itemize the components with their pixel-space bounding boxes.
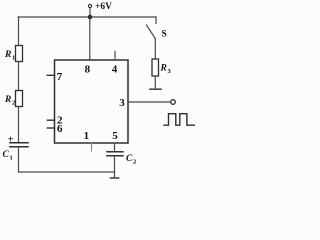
pin 7 stub [47, 74, 54, 76]
svg-text:2: 2 [12, 100, 15, 107]
wire left branch down to R1 [18, 17, 20, 46]
svg-text:R: R [4, 50, 11, 60]
wire R3 to ground [154, 76, 156, 89]
svg-text:4: 4 [112, 63, 118, 75]
wire top supply rail [18, 16, 156, 18]
svg-text:C: C [126, 154, 133, 164]
svg-text:+: + [8, 134, 14, 145]
svg-text:C: C [3, 150, 10, 160]
wire bottom rail [19, 171, 115, 173]
capacitor C2 [107, 152, 123, 156]
wire switch to R3 [154, 39, 156, 59]
junction node dot [88, 15, 93, 20]
svg-text:+6V: +6V [95, 2, 112, 12]
svg-text:2: 2 [133, 159, 136, 166]
resistor R3 [152, 59, 159, 76]
resistor R2 [16, 91, 23, 107]
pin 2 stub [47, 119, 54, 121]
power terminal circle [88, 4, 91, 7]
resistor R1 [16, 46, 23, 62]
ground bar under R3 [150, 88, 161, 90]
square wave symbol [164, 114, 194, 126]
wire R1 to R2 [18, 62, 20, 91]
switch S blade [147, 25, 156, 39]
svg-text:R: R [160, 64, 167, 74]
wire R2 to C1 [18, 107, 20, 143]
svg-text:1: 1 [84, 130, 90, 142]
svg-text:5: 5 [112, 130, 118, 142]
output terminal circle [171, 100, 176, 105]
svg-text:1: 1 [12, 55, 15, 62]
svg-text:R: R [4, 95, 11, 105]
svg-text:8: 8 [85, 63, 91, 75]
svg-text:3: 3 [119, 97, 125, 109]
pin 3 output wire [128, 101, 171, 103]
svg-text:S: S [162, 30, 167, 40]
pin 1 stub [91, 143, 93, 151]
wire C2 to ground [114, 156, 116, 178]
svg-text:7: 7 [57, 71, 63, 83]
svg-text:3: 3 [168, 68, 172, 75]
capacitor C1 [10, 143, 28, 147]
switch S contact stub [155, 17, 157, 24]
power terminal vertical lead [89, 8, 91, 17]
svg-text:6: 6 [57, 123, 63, 135]
pin 6 stub [47, 127, 54, 129]
svg-text:1: 1 [10, 155, 13, 162]
ground bar under C2 [111, 177, 119, 179]
pin 4 stub [114, 52, 116, 61]
op-amp U1 555 timer body [55, 60, 129, 143]
pin 8 wire to supply [89, 17, 91, 60]
pin 5 wire to C2 [114, 143, 116, 152]
wire C1 to bottom rail [18, 147, 20, 172]
